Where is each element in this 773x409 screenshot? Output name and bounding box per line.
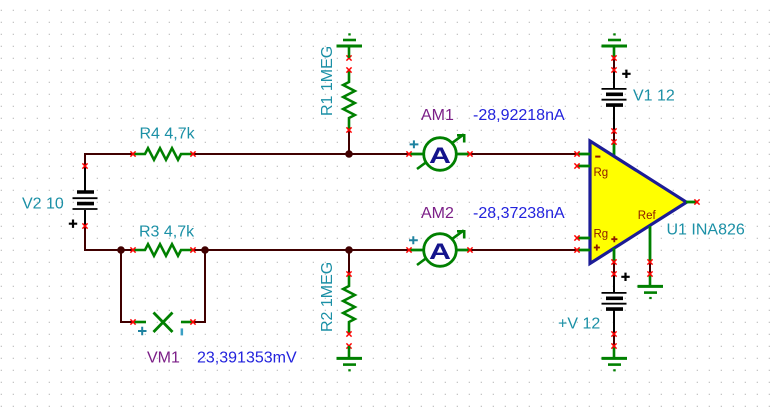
resistor R4 <box>133 148 193 160</box>
wire: node B down to VM1 left <box>121 249 133 322</box>
svg-text:AM2: AM2 <box>421 205 454 222</box>
U1 V+ supply pin <box>613 142 616 160</box>
svg-text:Rg: Rg <box>594 167 609 179</box>
wire: bottom rail to R2 top <box>348 250 350 274</box>
U1 minus input label <box>595 156 600 158</box>
svg-text:Rg: Rg <box>594 229 609 241</box>
wire: node C down to VM1 right <box>193 249 205 322</box>
ground below +V battery <box>602 346 628 370</box>
pin X marks V1 <box>611 67 616 72</box>
resistor R2 <box>343 274 355 334</box>
resistor R3 <box>133 244 193 256</box>
svg-text:A: A <box>429 239 451 264</box>
svg-text:+V 12: +V 12 <box>558 316 600 333</box>
U1 input pins (minus, Rg, Rg, plus) <box>577 154 590 250</box>
pin X mark +V ground <box>611 343 616 348</box>
pin X marks R3 <box>130 247 135 252</box>
junction node at R1 / top rail <box>345 150 353 158</box>
pin X mark V1 ground <box>611 55 616 60</box>
wire: V1 bottom to U1 V+ pin <box>613 131 615 142</box>
U1 Ref pin <box>649 226 652 262</box>
U1 output pin <box>686 201 698 204</box>
wire: V2 bottom to R3 left <box>85 226 133 250</box>
ammeter AM2 <box>409 230 470 266</box>
wire: ground to V1 top <box>613 58 615 70</box>
svg-text:R2 1MEG: R2 1MEG <box>319 262 336 332</box>
wire: R1 bottom to top rail <box>348 130 350 154</box>
U1 plus input label <box>594 245 600 251</box>
wire: U1 Ref pin to ground <box>649 262 651 274</box>
junction node C (right of R3) <box>201 246 209 254</box>
svg-text:V2 10: V2 10 <box>22 196 64 213</box>
VM1 minus terminal tick <box>181 328 184 335</box>
battery V2 <box>69 166 98 228</box>
wire: +V battery to ground <box>613 334 615 346</box>
ground below U1 Ref <box>638 274 664 298</box>
svg-text:R1 1MEG: R1 1MEG <box>319 46 336 116</box>
ground at R2 bottom <box>337 346 363 370</box>
svg-text:V1 12: V1 12 <box>633 88 675 105</box>
junction node B (left of R3) <box>117 246 125 254</box>
pin X marks R4 <box>130 151 135 156</box>
wire: AM2 right to U1 plus input <box>470 249 577 251</box>
wire: R3 right to AM2 left <box>193 249 409 251</box>
pin X marks AM2 <box>406 247 411 252</box>
battery V1 <box>602 70 631 131</box>
svg-text:-28,92218nA: -28,92218nA <box>473 107 565 124</box>
VM1 plus terminal mark <box>138 327 147 335</box>
svg-text:U1 INA826: U1 INA826 <box>667 222 745 239</box>
ground at R1 top <box>337 34 363 58</box>
svg-text:AM1: AM1 <box>421 107 454 124</box>
wire: U1 V- pin to +V battery <box>613 262 615 274</box>
svg-text:Ref: Ref <box>638 210 657 222</box>
junction node at R2 / bottom rail <box>345 246 353 254</box>
pin X marks AM1 <box>406 151 411 156</box>
wire: AM1 right to U1 minus input <box>470 153 577 155</box>
pin X marks V2 <box>82 163 87 168</box>
op-amp U1 INA826 <box>577 141 698 264</box>
voltmeter VM1 <box>134 313 192 333</box>
U1 plus mark near Rg <box>611 236 617 242</box>
wire: R4 right to AM1 left <box>193 153 409 155</box>
svg-text:A: A <box>429 143 451 168</box>
pin X mark Ref ground <box>647 271 652 276</box>
pin X marks R2 <box>346 271 351 276</box>
battery +V <box>602 273 630 334</box>
ground above V1 <box>602 34 628 58</box>
svg-text:R3 4,7k: R3 4,7k <box>139 224 195 241</box>
pin X marks U1 <box>574 151 579 156</box>
resistor R1 <box>343 70 355 130</box>
svg-text:VM1: VM1 <box>147 350 180 367</box>
svg-text:-28,37238nA: -28,37238nA <box>473 205 565 222</box>
ammeter AM1 <box>409 134 470 170</box>
U1 V- supply pin <box>613 248 616 262</box>
pin X marks VM1 <box>130 319 135 324</box>
svg-text:R4 4,7k: R4 4,7k <box>140 126 196 143</box>
U1 triangle body <box>590 141 687 264</box>
svg-text:23,391353mV: 23,391353mV <box>197 350 297 367</box>
wire: V2 top to R4 left (node top-left) <box>85 153 133 166</box>
pin X marks R1 <box>346 55 351 60</box>
pin X marks +V battery <box>611 271 616 276</box>
